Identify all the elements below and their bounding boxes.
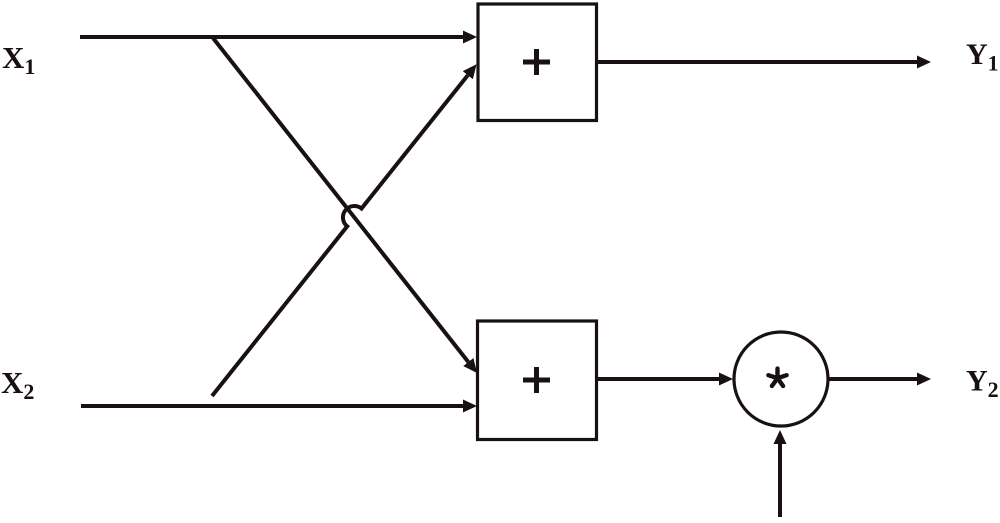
wire U1 to Y1 — [597, 60, 918, 64]
wire M1 to Y2 — [828, 377, 917, 381]
wire coefficient input to M1 — [778, 444, 782, 517]
adder U1 plus sign — [523, 49, 550, 75]
wire X1 input to adder U1 — [80, 35, 463, 39]
wire X2 diagonal to adder U1 (with hop) — [212, 75, 468, 396]
adder U1 box — [478, 4, 597, 121]
adder U2 plus sign — [523, 367, 550, 393]
multiplier M1 asterisk — [768, 369, 786, 386]
multiplier M1 circle — [734, 332, 828, 426]
wire X2 input to adder U2 — [81, 404, 463, 408]
wire X1 diagonal to adder U2 — [213, 38, 468, 362]
adder U2 box — [478, 321, 597, 440]
wire U2 to multiplier M1 — [597, 377, 720, 381]
